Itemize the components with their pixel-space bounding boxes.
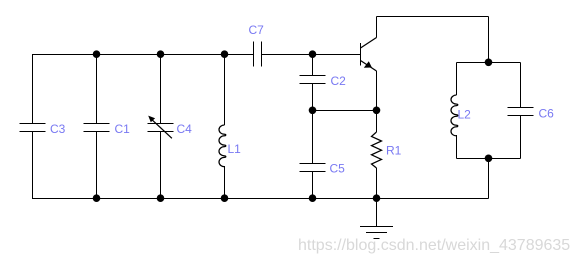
wire C4 column lower [160,132,162,199]
wire C1 column upper [96,55,98,124]
wire left vertical upper [32,55,34,124]
svg-text:C3: C3 [50,122,66,136]
ground [360,199,393,239]
node middle rail / C2-C5 [309,107,317,115]
capacitor C6 [508,108,534,116]
svg-text:L2: L2 [458,108,472,122]
inductor L2 [451,95,458,136]
wire C6 bottom lead [520,116,522,159]
wire emitter vertical [376,71,378,111]
node bottom rail / ground [373,194,381,202]
svg-text:C6: C6 [539,107,555,121]
wire L1 column upper [224,55,226,126]
svg-text:C4: C4 [177,122,193,136]
wire top rail left segment [32,54,254,56]
node middle rail / emitter-R1 [373,107,381,115]
wire top rail right segment (C7 to base) [262,54,361,56]
capacitor C4 arrowhead [148,116,155,123]
wire C2 column lower [312,84,314,111]
wire tank drop to ground rail [488,159,490,199]
wire L1 column lower [224,166,226,199]
node top rail / C2 [309,50,317,58]
wire L2 top lead [456,63,458,96]
capacitor C5 [300,164,326,172]
wire C5 column upper [312,111,314,164]
node bottom rail / C1 [93,194,101,202]
wire left vertical lower [32,132,34,199]
wire C6 top lead [520,63,522,108]
wire bottom rail [32,198,489,200]
resistor R1 [372,132,382,168]
capacitor C3 [20,124,46,132]
node top rail / L1 [221,50,229,58]
wire C1 column lower [96,132,98,199]
svg-text:https://blog.csdn.net/weixin_4: https://blog.csdn.net/weixin_43789635 [298,237,570,254]
transistor Q1 emitter diagonal [361,61,377,72]
wire collector vertical [376,17,378,38]
wire tank bottom rail [457,158,521,160]
node tank top [485,59,493,67]
wire L2 bottom lead [456,135,458,159]
wire middle rail [313,110,377,112]
node top rail / C4 [157,50,165,58]
capacitor C2 [300,76,326,84]
wire C2 column upper [312,55,314,76]
capacitor C4 variable arrow line [150,118,172,139]
wire tank top rail [457,62,521,64]
node bottom rail / C5 [309,194,317,202]
wire top feedback rail [377,16,489,18]
transistor Q1 emitter arrowhead [364,61,372,68]
capacitor C7 [254,42,262,67]
svg-text:C2: C2 [331,74,347,88]
capacitor C4 [148,124,174,132]
node bottom rail / L1 [221,194,229,202]
svg-text:C5: C5 [330,162,346,176]
wire C4 column upper [160,55,162,124]
wire feedback drop to tank [488,17,490,63]
node tank bottom [485,155,493,163]
svg-text:C7: C7 [249,23,265,37]
capacitor C1 [84,124,110,132]
inductor L1 [219,125,226,167]
node top rail / C1 [93,50,101,58]
wire R1 top lead [376,111,378,133]
node bottom rail / C4 [157,194,165,202]
transistor Q1 base bar [360,43,362,66]
wire C5 column lower [312,172,314,199]
transistor Q1 collector diagonal [361,38,377,49]
svg-text:R1: R1 [386,144,402,158]
svg-text:C1: C1 [115,122,131,136]
wire R1 bottom lead [376,168,378,199]
svg-text:L1: L1 [228,142,242,156]
